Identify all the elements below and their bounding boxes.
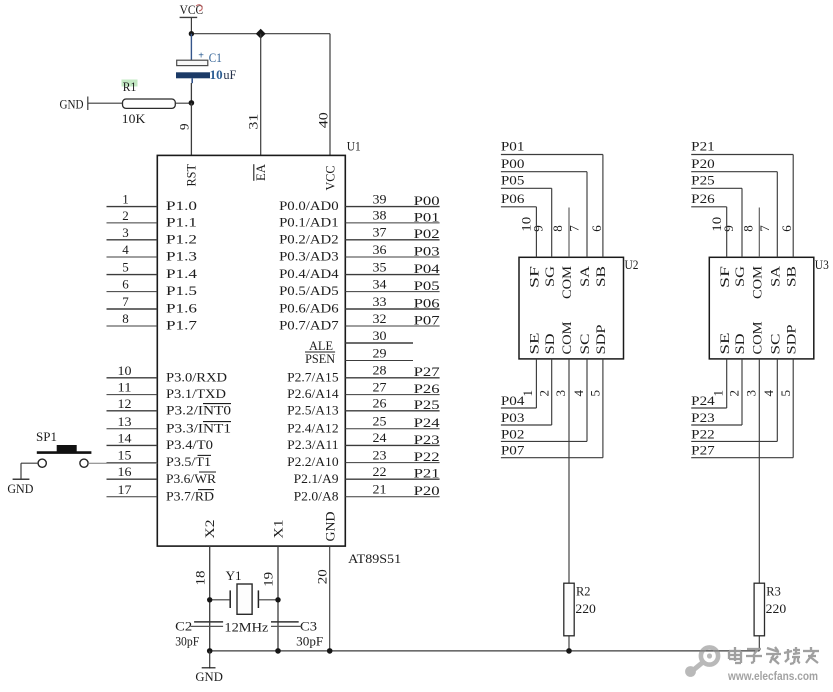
svg-text:37: 37 [373, 225, 388, 240]
pin label GND (rotated) [324, 512, 338, 542]
node junction rail/pin20 [327, 648, 333, 654]
svg-text:2: 2 [536, 390, 551, 397]
wire pin 6 P1.5 [107, 291, 158, 293]
node junction X2/Y1 [207, 597, 212, 602]
wire pin 33 [345, 308, 439, 310]
pin number 38 [373, 208, 387, 223]
wire pin 16 P3.6/WR [107, 478, 158, 480]
pin label P0.4/AD4 [279, 266, 339, 281]
pin number 4 (bottom) [761, 390, 776, 397]
wire pin 22 [345, 478, 439, 480]
svg-text:13: 13 [118, 414, 132, 429]
svg-text:P0.1/AD1: P0.1/AD1 [279, 215, 339, 230]
pin label P3.3/INT1 [166, 420, 231, 435]
svg-text:24: 24 [373, 430, 388, 445]
svg-text:P06: P06 [414, 295, 441, 310]
svg-text:SF: SF [718, 266, 732, 288]
svg-text:P0.3/AD3: P0.3/AD3 [279, 249, 339, 264]
svg-text:P1.2: P1.2 [166, 231, 197, 246]
svg-text:X2: X2 [203, 520, 217, 539]
svg-text:1: 1 [122, 192, 129, 207]
pin number 16 [118, 464, 133, 479]
node net label P27 [414, 364, 441, 379]
svg-text:21: 21 [373, 482, 387, 497]
wire net P26 to U3 [691, 207, 727, 257]
node net label P04 [501, 393, 525, 408]
pin label P1.5 [166, 283, 197, 298]
pin label P0.7/AD7 [279, 318, 339, 333]
pin number 34 [373, 276, 388, 291]
svg-text:SG: SG [543, 266, 557, 287]
svg-text:3: 3 [553, 390, 568, 397]
svg-text:4: 4 [761, 390, 776, 397]
svg-text:8: 8 [122, 311, 129, 326]
pin number 12 [118, 396, 132, 411]
svg-text:31: 31 [246, 114, 261, 130]
pin label SB (top) [784, 266, 798, 287]
pin number 8 (top) [740, 225, 755, 232]
svg-text:4: 4 [122, 242, 129, 257]
svg-text:P3.0/RXD: P3.0/RXD [166, 369, 227, 384]
node junction rail/R2 [566, 648, 572, 654]
svg-text:220: 220 [766, 601, 787, 616]
svg-text:P0.5/AD5: P0.5/AD5 [279, 283, 339, 298]
node net label P24 [691, 393, 715, 408]
svg-text:P0.7/AD7: P0.7/AD7 [279, 318, 339, 333]
svg-text:COM: COM [560, 266, 574, 299]
pin label P1.7 [166, 318, 198, 333]
pin number 14 [118, 430, 133, 445]
wire RST pin 9 [190, 103, 192, 155]
pin label PSEN [305, 351, 336, 366]
pin label RST (rotated) [185, 164, 199, 187]
wire pin 39 [345, 206, 439, 208]
svg-text:P0.4/AD4: P0.4/AD4 [279, 266, 339, 281]
pin number 6 [122, 277, 129, 292]
pin label P2.4/A12 [287, 420, 339, 435]
pin number 8 [122, 311, 129, 326]
pin number 7 (top) [567, 225, 582, 232]
svg-text:SC: SC [769, 334, 783, 355]
pin number 18 [193, 571, 208, 586]
svg-text:P1.3: P1.3 [166, 249, 197, 264]
node junction X1/Y1 [275, 597, 280, 602]
wire EA branch [260, 34, 262, 156]
svg-text:20: 20 [315, 569, 330, 584]
node net label P01 [501, 139, 525, 154]
svg-text:5: 5 [778, 390, 793, 397]
wire pin 3 P1.2 [107, 239, 158, 241]
svg-text:2: 2 [122, 208, 129, 223]
svg-text:U1: U1 [347, 138, 361, 153]
svg-text:SDP: SDP [784, 324, 798, 354]
svg-text:P01: P01 [414, 209, 440, 224]
pin label SDP (bottom) [594, 324, 608, 354]
pin label P0.1/AD1 [279, 215, 339, 230]
pin number 23 [373, 447, 387, 462]
svg-text:P3.3/INT1: P3.3/INT1 [166, 420, 231, 435]
node net label P21 [414, 466, 440, 481]
wire pin 30 [345, 342, 413, 344]
svg-text:P02: P02 [501, 426, 525, 441]
wire net P01 to U2 [501, 155, 603, 258]
pin number 17 [118, 482, 133, 497]
node net label P04 [414, 261, 441, 276]
node net label P26 [414, 381, 441, 396]
svg-text:30pF: 30pF [175, 634, 199, 649]
svg-text:P0.2/AD2: P0.2/AD2 [279, 231, 339, 246]
pin label P3.6/WR [166, 471, 216, 486]
svg-text:12: 12 [118, 396, 132, 411]
node net label P21 [691, 139, 715, 154]
pin label ALE [309, 338, 333, 353]
svg-text:SA: SA [769, 266, 783, 287]
switch SP1 [36, 429, 91, 468]
wire net P04 to U2 [501, 359, 537, 408]
svg-text:VCC: VCC [323, 166, 337, 191]
pin number 6 (top) [779, 225, 794, 232]
wire pin 13 P3.3/INT1 [107, 428, 158, 430]
svg-text:4: 4 [571, 390, 586, 397]
svg-text:19: 19 [261, 572, 276, 587]
svg-text:SG: SG [733, 266, 747, 287]
svg-text:23: 23 [373, 447, 387, 462]
pin label X2 (rotated) [203, 520, 217, 539]
svg-text:COM: COM [560, 322, 574, 355]
svg-text:18: 18 [193, 571, 208, 586]
pin label P0.5/AD5 [279, 283, 339, 298]
pin label SE (bottom) [718, 332, 732, 355]
svg-text:SD: SD [543, 334, 557, 355]
wire net P05 to U2 [501, 188, 552, 257]
pin number 21 [373, 482, 387, 497]
svg-text:P23: P23 [414, 432, 440, 447]
pin label P0.2/AD2 [279, 231, 339, 246]
pin number 24 [373, 430, 388, 445]
svg-text:25: 25 [373, 414, 387, 429]
svg-text:P05: P05 [414, 278, 440, 293]
svg-text:30: 30 [373, 328, 387, 343]
wire pin 1 P1.0 [107, 206, 158, 208]
svg-text:SE: SE [718, 332, 732, 355]
wire net P20 to U3 [691, 172, 777, 258]
wire COM to resistor R2 [568, 359, 570, 651]
node net label P06 [414, 295, 441, 310]
pin label COM (top) [560, 266, 574, 299]
pin label P2.0/A8 [294, 488, 339, 503]
svg-text:P2.6/A14: P2.6/A14 [287, 386, 339, 401]
pin number 3 (bottom) [743, 390, 758, 397]
svg-text:12MHz: 12MHz [224, 620, 268, 635]
reference designator U2 [625, 257, 639, 272]
wire pin 35 [345, 274, 439, 276]
node net label P07 [501, 443, 525, 458]
svg-text:U3: U3 [815, 257, 829, 272]
wire SP1 to GND [21, 463, 38, 479]
pin number 35 [373, 259, 387, 274]
wire R1 to RST node [175, 102, 191, 104]
pin label P0.0/AD0 [279, 198, 339, 213]
svg-text:GND: GND [60, 96, 84, 111]
pin label COM (bottom) [560, 322, 574, 355]
svg-text:P3.6/WR: P3.6/WR [166, 471, 216, 486]
capacitor C2 30pF [175, 618, 223, 648]
svg-text:P1.1: P1.1 [166, 215, 197, 230]
wire pin 14 P3.4/T0 [107, 444, 158, 446]
svg-text:PSEN: PSEN [305, 351, 336, 366]
pin number 19 [261, 572, 276, 587]
pin number 22 [373, 464, 387, 479]
node net label P20 [691, 156, 715, 171]
wire net P02 to U2 [501, 359, 587, 442]
pin label P2.2/A10 [287, 454, 339, 469]
pin number 5 (bottom) [778, 390, 793, 397]
power symbol VCC [180, 2, 204, 34]
pin label P2.6/A14 [287, 386, 339, 401]
pin label EA (rotated, active low) [254, 164, 268, 181]
node net label P26 [691, 191, 715, 206]
node junction EA branch [256, 29, 266, 39]
wire net P03 to U2 [501, 359, 552, 425]
svg-text:10: 10 [210, 67, 223, 82]
svg-text:P22: P22 [691, 426, 715, 441]
pin label P1.3 [166, 249, 197, 264]
svg-text:P27: P27 [414, 364, 441, 379]
pin number 9 (top) [721, 225, 736, 232]
pin number 37 [373, 225, 388, 240]
svg-text:C2: C2 [175, 618, 192, 633]
svg-text:SP1: SP1 [36, 429, 57, 444]
svg-text:EA: EA [254, 164, 268, 181]
node net label P24 [414, 415, 441, 430]
svg-text:P3.2/INT0: P3.2/INT0 [166, 402, 231, 417]
node net label P02 [414, 226, 440, 241]
wire pin 37 [345, 239, 439, 241]
svg-text:P22: P22 [414, 449, 440, 464]
resistor R2 220 [564, 583, 596, 636]
pin number 25 [373, 414, 387, 429]
svg-text:U2: U2 [625, 257, 639, 272]
svg-text:R2: R2 [576, 583, 591, 598]
svg-text:SB: SB [594, 266, 608, 287]
pin number 10 (top) [519, 217, 534, 232]
pin label SD (bottom) [543, 334, 557, 355]
reference designator U1 [347, 138, 361, 153]
wire COM stub (top) [568, 208, 570, 258]
node junction VCC/C1 [189, 31, 194, 36]
wire COM to resistor R3 [758, 359, 760, 651]
svg-text:C3: C3 [300, 618, 317, 633]
svg-text:GND: GND [7, 481, 33, 496]
value label AT89S51 [348, 551, 401, 566]
pin number 2 (bottom) [536, 390, 551, 397]
pin label SA (top) [769, 266, 783, 287]
svg-text:17: 17 [118, 482, 133, 497]
svg-text:28: 28 [373, 363, 387, 378]
node net label P23 [691, 410, 715, 425]
pin label P1.0 [166, 198, 197, 213]
pin number 36 [373, 242, 388, 257]
node net label P20 [414, 483, 440, 498]
svg-text:P20: P20 [414, 483, 440, 498]
svg-text:COM: COM [751, 322, 765, 355]
node net label P06 [501, 191, 525, 206]
svg-text:P2.5/A13: P2.5/A13 [287, 402, 339, 417]
wire net P00 to U2 [501, 172, 587, 258]
wire net P22 to U3 [691, 359, 777, 442]
wire net P24 to U3 [691, 359, 727, 408]
pin number 5 (bottom) [588, 390, 603, 397]
svg-text:P20: P20 [691, 156, 715, 171]
pin number 1 (bottom) [710, 390, 725, 397]
svg-text:P2.1/A9: P2.1/A9 [294, 471, 339, 486]
svg-text:16: 16 [118, 464, 133, 479]
pin number 4 [122, 242, 129, 257]
wire pin 28 [345, 377, 439, 379]
svg-text:P27: P27 [691, 443, 715, 458]
pin number 3 (bottom) [553, 390, 568, 397]
pin label P2.3/A11 [287, 437, 339, 452]
svg-text:P26: P26 [414, 381, 441, 396]
svg-text:P01: P01 [501, 139, 525, 154]
wire pin 38 [345, 222, 439, 224]
pin number 9 [176, 124, 191, 131]
svg-text:39: 39 [373, 191, 387, 206]
wire pin 26 [345, 410, 439, 412]
svg-text:9: 9 [531, 225, 546, 232]
svg-text:38: 38 [373, 208, 387, 223]
pin number 28 [373, 363, 387, 378]
wire VCC rail [191, 34, 330, 156]
wire pin 12 P3.2/INT0 [107, 410, 158, 412]
svg-text:P2.0/A8: P2.0/A8 [294, 488, 339, 503]
pin number 2 [122, 208, 129, 223]
svg-text:34: 34 [373, 276, 388, 291]
wire pin 17 P3.7/RD [107, 496, 158, 498]
wire pin 34 [345, 291, 439, 293]
wire pin 21 [345, 496, 439, 498]
svg-text:SDP: SDP [594, 324, 608, 354]
pin number 29 [373, 345, 387, 360]
svg-text:P24: P24 [691, 393, 715, 408]
svg-text:AT89S51: AT89S51 [348, 551, 401, 566]
pin label SD (bottom) [733, 334, 747, 355]
svg-text:5: 5 [122, 260, 129, 275]
svg-text:P23: P23 [691, 410, 715, 425]
svg-text:33: 33 [373, 294, 387, 309]
svg-text:6: 6 [122, 277, 129, 292]
watermark url www.elecfans.com [727, 669, 818, 683]
pin label SF (top) [718, 266, 732, 288]
pin number 32 [373, 311, 387, 326]
wire net P21 to U3 [691, 155, 793, 258]
svg-text:COM: COM [751, 266, 765, 299]
svg-text:P07: P07 [414, 312, 441, 327]
pin label SC (bottom) [769, 334, 783, 355]
svg-text:GND: GND [195, 669, 223, 684]
svg-text:P1.0: P1.0 [166, 198, 197, 213]
pin label P3.5/T1 [166, 454, 211, 469]
pin label P1.6 [166, 301, 198, 316]
pin label P3.7/RD [166, 488, 214, 503]
pin label SDP (bottom) [784, 324, 798, 354]
svg-text:11: 11 [118, 380, 132, 395]
pin label SG (top) [733, 266, 747, 287]
pin number 39 [373, 191, 387, 206]
pin number 1 (bottom) [520, 390, 535, 397]
ground net label GND (top-left) [60, 96, 88, 111]
pin label P1.2 [166, 231, 197, 246]
svg-text:P25: P25 [691, 173, 715, 188]
node net label P27 [691, 443, 715, 458]
pin label P1.1 [166, 215, 197, 230]
wire net P23 to U3 [691, 359, 742, 425]
pin label SG (top) [543, 266, 557, 287]
pin number 11 [118, 380, 132, 395]
op-amp U1 AT89S51 box [157, 155, 345, 546]
svg-text:P21: P21 [414, 466, 440, 481]
wire net P07 to U2 [501, 359, 603, 458]
svg-text:14: 14 [118, 430, 133, 445]
pin number 8 (top) [550, 225, 565, 232]
pin number 31 [246, 114, 261, 130]
svg-text:P1.6: P1.6 [166, 301, 198, 316]
resistor R3 220 [754, 583, 786, 636]
crystal Y1 12MHz [210, 568, 278, 614]
svg-text:P06: P06 [501, 191, 525, 206]
pin label SF (top) [528, 266, 542, 288]
svg-text:P26: P26 [691, 191, 715, 206]
svg-text:6: 6 [779, 225, 794, 232]
svg-text:GND: GND [324, 512, 338, 542]
svg-text:P3.4/T0: P3.4/T0 [166, 437, 213, 452]
svg-text:P24: P24 [414, 415, 441, 430]
wire GND pin 20 [329, 546, 331, 651]
svg-text:P0.6/AD6: P0.6/AD6 [279, 301, 339, 316]
node junction R1/C1/RST [189, 100, 195, 106]
pin label COM (top) [751, 266, 765, 299]
node net label P07 [414, 312, 441, 327]
capacitor C3 30pF [271, 618, 323, 648]
node net label P23 [414, 432, 440, 447]
wire pin 36 [345, 256, 439, 258]
svg-text:29: 29 [373, 345, 387, 360]
svg-text:3: 3 [122, 225, 129, 240]
svg-text:P03: P03 [414, 243, 440, 258]
wire pin 10 P3.0/RXD [107, 377, 158, 379]
wire ground rail (bottom) [210, 650, 760, 652]
svg-text:P1.5: P1.5 [166, 283, 197, 298]
svg-text:30pF: 30pF [296, 634, 323, 649]
pin label P2.5/A13 [287, 402, 339, 417]
pin label SA (top) [578, 266, 592, 287]
node net label P22 [691, 426, 715, 441]
node junction rail/X2 [207, 648, 213, 654]
node net label P00 [501, 156, 525, 171]
svg-text:P04: P04 [501, 393, 525, 408]
wire pin 23 [345, 462, 439, 464]
node net label P00 [414, 193, 440, 208]
node net label P03 [414, 243, 440, 258]
resistor R1 10K [122, 79, 176, 126]
svg-text:X1: X1 [271, 520, 285, 539]
svg-text:6: 6 [589, 225, 604, 232]
node net label P25 [414, 397, 440, 412]
wire COM stub (top) [758, 208, 760, 258]
wire pin 15 P3.5/T1 [107, 462, 158, 464]
svg-text:uF: uF [223, 67, 236, 82]
svg-text:32: 32 [373, 311, 387, 326]
